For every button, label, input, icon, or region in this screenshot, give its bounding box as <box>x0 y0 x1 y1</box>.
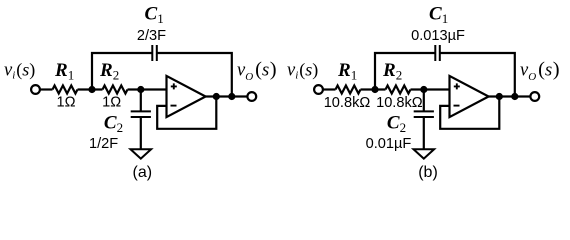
svg-text:0.013µF: 0.013µF <box>411 28 465 44</box>
svg-text:vi(s): vi(s) <box>4 60 35 82</box>
svg-text:10.8kΩ: 10.8kΩ <box>324 95 371 111</box>
svg-text:2/3F: 2/3F <box>137 28 166 44</box>
svg-text:1Ω: 1Ω <box>56 95 75 111</box>
svg-text:vO(s): vO(s) <box>237 59 277 83</box>
svg-text:1Ω: 1Ω <box>102 95 121 111</box>
svg-text:(b): (b) <box>418 164 438 181</box>
svg-text:vi(s): vi(s) <box>287 60 318 82</box>
svg-text:0.01µF: 0.01µF <box>366 136 412 152</box>
svg-text:(a): (a) <box>133 164 153 181</box>
svg-text:1/2F: 1/2F <box>89 136 118 152</box>
svg-text:vO(s): vO(s) <box>520 59 560 83</box>
svg-text:10.8kΩ: 10.8kΩ <box>376 95 423 111</box>
